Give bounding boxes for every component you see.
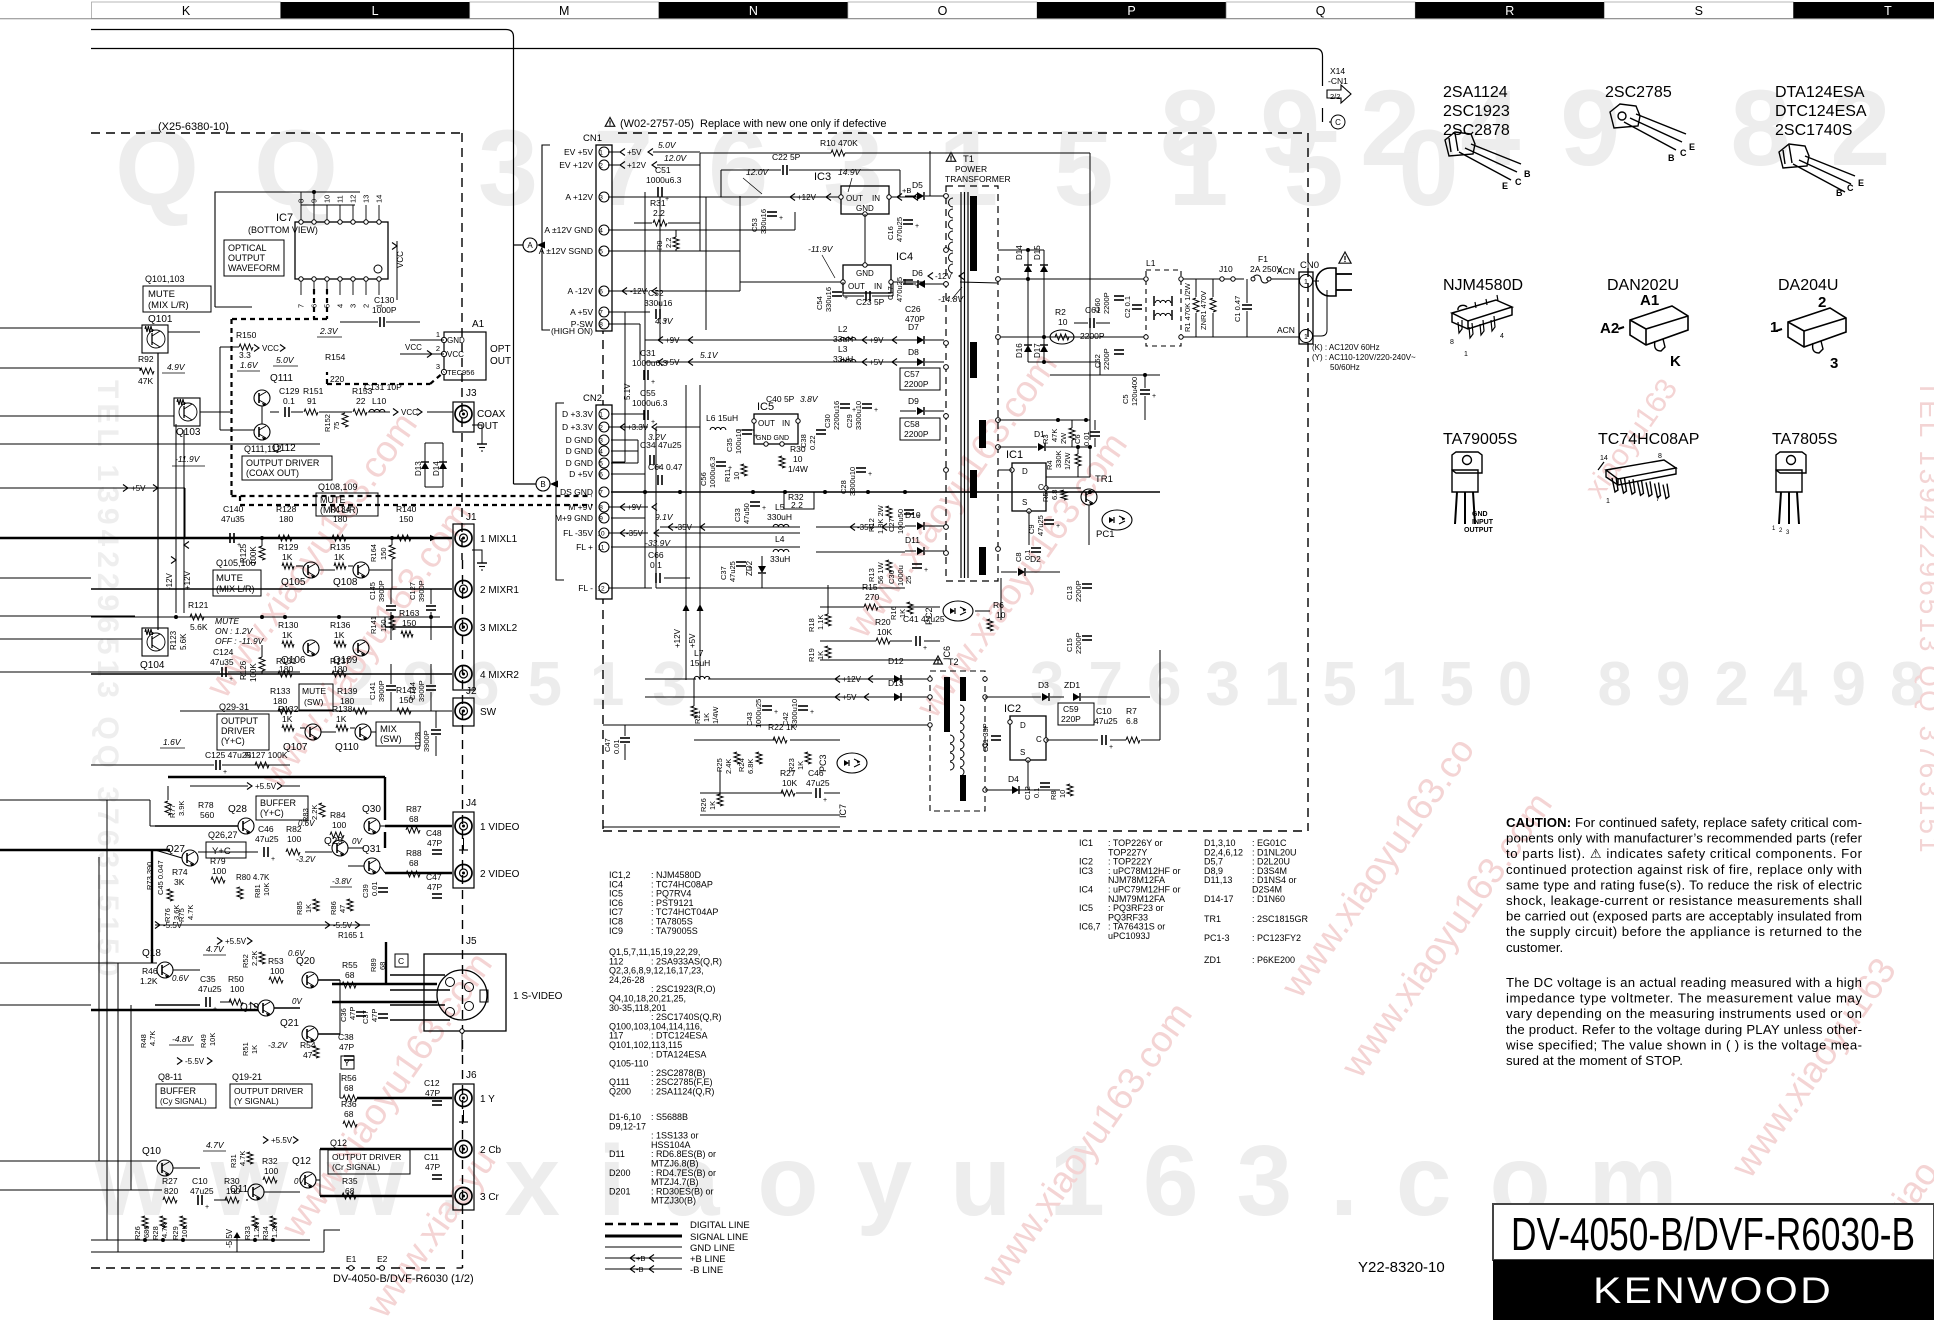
svg-text:same type and rating fuse(s).: same type and rating fuse(s). To reduce … <box>1506 877 1862 892</box>
svg-text:: TA79005S: : TA79005S <box>651 926 698 936</box>
svg-text:C15: C15 <box>1065 638 1074 652</box>
svg-text:10K: 10K <box>262 883 271 896</box>
svg-text:COAX: COAX <box>477 409 506 420</box>
svg-text:470u25: 470u25 <box>895 277 904 302</box>
svg-text:R56: R56 <box>341 1073 357 1083</box>
svg-text:M+9 GND: M+9 GND <box>555 513 593 523</box>
svg-text:+9V: +9V <box>665 336 680 345</box>
svg-text:TEL 13942296513 QQ 3763151: TEL 13942296513 QQ 3763151 <box>1914 380 1934 856</box>
svg-text:4 MIXR2: 4 MIXR2 <box>480 670 519 681</box>
svg-text:OUTPUT: OUTPUT <box>221 716 259 726</box>
svg-text:C39: C39 <box>361 884 370 898</box>
thick mix wire entry <box>91 849 170 851</box>
svg-text:+: + <box>823 797 827 804</box>
svg-text:IN: IN <box>872 194 880 203</box>
wire VCC vertical right of IC7 <box>396 241 398 300</box>
svg-text:+: + <box>651 379 655 386</box>
svg-text:A2: A2 <box>1600 320 1619 337</box>
svg-text:3900P: 3900P <box>377 580 386 602</box>
svg-text:J10: J10 <box>1219 264 1233 274</box>
svg-text:3 MIXL2: 3 MIXL2 <box>480 623 518 634</box>
digital dashed lines into IC7 pins <box>313 289 315 319</box>
svg-text:C: C <box>1038 483 1044 492</box>
svg-text:+: + <box>1056 523 1060 530</box>
svg-text:OUT: OUT <box>477 421 498 432</box>
svg-text:10: 10 <box>1058 317 1068 327</box>
mix SW box <box>376 722 420 746</box>
svg-text:C33: C33 <box>733 508 742 522</box>
+5.5V arrow bottom row <box>263 1137 268 1144</box>
mute block box MUTE (MIX L/R) <box>143 286 211 312</box>
+5V row T2 <box>645 696 930 698</box>
svg-text:B: B <box>1524 169 1531 179</box>
transistor Q105 <box>303 562 319 578</box>
wire vertical junction col <box>705 197 707 330</box>
svg-text:2.2: 2.2 <box>791 500 803 510</box>
svg-text:R46: R46 <box>142 966 158 976</box>
svg-text:C45 0.047: C45 0.047 <box>156 860 165 895</box>
svg-text:C127: C127 <box>408 582 417 600</box>
svg-text:4.7K: 4.7K <box>148 1031 157 1046</box>
svg-text:DV-4050-B/DVF-R6030-B: DV-4050-B/DVF-R6030-B <box>1511 1208 1915 1260</box>
svg-text:C52: C52 <box>648 288 664 298</box>
svg-text:+12V: +12V <box>673 628 682 648</box>
svg-text:-3.2V: -3.2V <box>268 1041 288 1050</box>
svg-text:470u25: 470u25 <box>895 217 904 242</box>
svg-text:Q110: Q110 <box>335 742 359 753</box>
svg-text:12: 12 <box>349 195 358 203</box>
IC3 wires <box>706 196 839 198</box>
package drawing NJM4580D DIP-8 <box>1452 295 1512 338</box>
boxed Y label <box>341 1056 354 1069</box>
svg-text:B: B <box>1836 188 1843 198</box>
svg-text:+B: +B <box>902 186 911 195</box>
svg-text:5.1V: 5.1V <box>700 350 719 360</box>
svg-text:OUT: OUT <box>846 194 863 203</box>
svg-text:VCC: VCC <box>401 408 418 417</box>
svg-text:R163: R163 <box>399 608 420 618</box>
svg-text:C16: C16 <box>886 226 895 240</box>
svg-text:R32: R32 <box>262 1156 278 1166</box>
svg-text:2SC2785: 2SC2785 <box>1605 84 1672 101</box>
T1 node circles right <box>996 277 1001 282</box>
svg-text:TR1: TR1 <box>1095 474 1113 485</box>
svg-text:15uH: 15uH <box>690 658 710 668</box>
svg-text:10K: 10K <box>208 1033 217 1046</box>
svg-text:1K: 1K <box>702 713 711 722</box>
svg-text:C6: C6 <box>1073 434 1082 444</box>
signal wire SW row <box>180 710 452 712</box>
svg-text:Q18: Q18 <box>142 948 161 959</box>
svg-text:C34 47u25: C34 47u25 <box>640 440 682 450</box>
svg-text:Q8-11: Q8-11 <box>158 1072 182 1082</box>
svg-text:R86: R86 <box>329 901 338 915</box>
svg-text:+5V: +5V <box>869 358 884 367</box>
svg-text:R133: R133 <box>270 686 291 696</box>
svg-text:R19: R19 <box>807 648 816 662</box>
svg-text:A1: A1 <box>472 319 485 330</box>
svg-text:C59: C59 <box>1063 704 1079 714</box>
svg-text:R48: R48 <box>139 1034 148 1048</box>
svg-text:OPT: OPT <box>490 344 511 355</box>
svg-text:R12: R12 <box>867 518 876 532</box>
svg-text:1K: 1K <box>336 714 347 724</box>
svg-text:-11.9V: -11.9V <box>175 454 201 464</box>
svg-text:47u35: 47u35 <box>221 514 245 524</box>
svg-text:(HIGH ON): (HIGH ON) <box>551 326 593 336</box>
svg-text:wise specified; The value show: wise specified; The value shown in ( ) i… <box>1505 1037 1862 1052</box>
svg-text:10: 10 <box>1058 790 1067 798</box>
svg-text:L6 15uH: L6 15uH <box>706 413 738 423</box>
svg-text:R128: R128 <box>276 504 297 514</box>
svg-text:Q19-21: Q19-21 <box>232 1072 262 1082</box>
svg-text:1/4W: 1/4W <box>711 706 720 724</box>
svg-text:56 1W: 56 1W <box>876 561 885 584</box>
svg-text:(SW): (SW) <box>304 697 324 707</box>
svg-text:12.0V: 12.0V <box>664 153 688 163</box>
svg-text:IC7: IC7 <box>838 804 848 818</box>
thick chroma bus top <box>168 776 385 778</box>
svg-text:R130: R130 <box>278 620 299 630</box>
svg-text:-11.9V: -11.9V <box>808 244 834 254</box>
wire Q111/Q112 chain <box>219 347 221 430</box>
svg-text:J4: J4 <box>466 798 477 809</box>
svg-text:PC1: PC1 <box>1096 529 1114 540</box>
svg-text:R49: R49 <box>199 1034 208 1048</box>
svg-text:C47: C47 <box>603 738 612 752</box>
svg-text:C36: C36 <box>887 570 896 584</box>
J5 wires <box>390 974 445 976</box>
svg-text:+5V: +5V <box>842 693 857 702</box>
svg-text:47P: 47P <box>348 1007 357 1020</box>
svg-text:O: O <box>938 4 948 18</box>
svg-text:-4.8V: -4.8V <box>172 1034 194 1044</box>
svg-text:C48: C48 <box>426 828 442 838</box>
power bottom wires <box>827 585 829 614</box>
svg-text:R22 1K: R22 1K <box>768 722 797 732</box>
svg-text:the supply circuit) before the: the supply circuit) before the appliance… <box>1506 924 1862 939</box>
header underline <box>0 18 1934 20</box>
wire FL rows <box>656 546 800 548</box>
svg-text:L4: L4 <box>775 534 785 544</box>
svg-text:L10: L10 <box>372 396 386 406</box>
svg-text:EV +12V: EV +12V <box>559 160 593 170</box>
package drawing DA204U SOT <box>1776 308 1846 353</box>
IC3 gnd stem <box>864 214 866 265</box>
svg-text:+: + <box>271 856 275 863</box>
mute box MUTE MIX L/R 2 <box>316 493 378 516</box>
svg-text:+: + <box>923 645 927 652</box>
capacitor C58 2200P boxed <box>900 418 940 440</box>
svg-text:L: L <box>372 4 379 18</box>
svg-text:R33: R33 <box>243 1226 252 1240</box>
svg-text:2SC2878: 2SC2878 <box>1443 122 1510 139</box>
svg-text:CN2: CN2 <box>583 393 602 404</box>
svg-text:C129: C129 <box>279 386 300 396</box>
svg-text:: DTA124ESA: : DTA124ESA <box>651 1049 706 1059</box>
svg-text:R123: R123 <box>169 630 178 650</box>
svg-text:C53: C53 <box>750 218 759 232</box>
svg-text:47u25: 47u25 <box>806 778 830 788</box>
svg-text:D9,12-17: D9,12-17 <box>609 1121 646 1131</box>
svg-text:customer.: customer. <box>1506 940 1563 955</box>
svg-text:7: 7 <box>599 490 603 497</box>
svg-text:C31: C31 <box>640 348 656 358</box>
svg-text:120u400: 120u400 <box>1130 377 1139 406</box>
svg-text:IC6,7: IC6,7 <box>1079 922 1101 932</box>
svg-text:100K: 100K <box>249 663 258 682</box>
svg-text:J3: J3 <box>466 388 477 399</box>
buffer row bus wires <box>167 786 169 800</box>
svg-text:E: E <box>1502 181 1508 191</box>
svg-text:R140: R140 <box>396 504 417 514</box>
svg-text:47u25: 47u25 <box>728 561 737 582</box>
svg-text:330uH: 330uH <box>767 512 792 522</box>
bracket B <box>556 403 564 580</box>
svg-text:R20: R20 <box>875 617 891 627</box>
svg-text:R26: R26 <box>133 1226 142 1240</box>
svg-text:D +3.3V: D +3.3V <box>562 409 593 419</box>
T2 lower wires <box>694 739 776 741</box>
svg-text:330K: 330K <box>1054 450 1063 468</box>
bottom gnd bus <box>91 1239 310 1241</box>
svg-text:1 S-VIDEO: 1 S-VIDEO <box>513 991 563 1002</box>
svg-text:2.2K: 2.2K <box>310 805 319 820</box>
svg-text:Q19: Q19 <box>240 1002 259 1013</box>
CN2 pin stub wires <box>611 413 645 415</box>
svg-text:POWER: POWER <box>955 164 987 174</box>
power board dashed outline <box>618 132 1308 134</box>
svg-text:E: E <box>1689 142 1695 152</box>
svg-text:3.8V: 3.8V <box>800 394 819 404</box>
svg-text:0.6V: 0.6V <box>172 974 189 983</box>
svg-text:R78: R78 <box>198 800 214 810</box>
svg-text:-B: -B <box>636 1265 644 1274</box>
wires IC2 area <box>1046 739 1098 741</box>
svg-text:C46: C46 <box>808 768 824 778</box>
svg-text:C8: C8 <box>1014 552 1023 562</box>
svg-text:OUTPUT DRIVER: OUTPUT DRIVER <box>246 458 320 468</box>
svg-text:5: 5 <box>599 461 603 468</box>
svg-text:2SC1740S: 2SC1740S <box>1775 122 1852 139</box>
svg-text:C12: C12 <box>1023 786 1032 800</box>
svg-text:2SC1923: 2SC1923 <box>1443 103 1510 120</box>
svg-text:R127 100K: R127 100K <box>245 750 288 760</box>
svg-text:1 VIDEO: 1 VIDEO <box>480 822 520 833</box>
svg-text:2200P: 2200P <box>904 379 929 389</box>
transistor Q27 <box>182 850 198 866</box>
svg-text:1K: 1K <box>250 1045 259 1054</box>
svg-text:R24: R24 <box>737 758 746 772</box>
svg-text:WAVEFORM: WAVEFORM <box>228 263 280 273</box>
svg-text:INPUT: INPUT <box>1472 519 1494 526</box>
package drawing TA7805S TO-220 <box>1776 452 1806 524</box>
svg-text:: P6KE200: : P6KE200 <box>1252 955 1295 965</box>
svg-text:C145: C145 <box>368 582 377 600</box>
svg-text:ZD1: ZD1 <box>1204 955 1221 965</box>
svg-text:R50: R50 <box>228 974 244 984</box>
svg-text:Q12: Q12 <box>330 1138 347 1148</box>
svg-text:CN0: CN0 <box>1300 260 1319 271</box>
svg-text:C12: C12 <box>424 1078 440 1088</box>
left margin vertical bus 4 <box>98 857 100 1161</box>
svg-text:R88: R88 <box>406 848 422 858</box>
svg-text:R31: R31 <box>650 198 666 208</box>
svg-text:C17: C17 <box>886 286 895 300</box>
svg-text:Q105,106: Q105,106 <box>216 558 256 568</box>
svg-text:100: 100 <box>270 966 284 976</box>
svg-text:Q200: Q200 <box>609 1087 631 1097</box>
svg-text:180: 180 <box>279 514 293 524</box>
connector J6 jacks <box>453 1084 474 1210</box>
svg-text:D +5V: D +5V <box>569 469 593 479</box>
svg-text:TA79005S: TA79005S <box>1443 431 1517 448</box>
+12V row T2 <box>645 678 696 680</box>
+5V arrows row <box>645 361 920 363</box>
svg-text:C128: C128 <box>413 732 422 750</box>
svg-text:R51: R51 <box>241 1042 250 1056</box>
svg-text:IC3: IC3 <box>814 171 831 183</box>
wire MIXL1 entry thick <box>0 537 91 540</box>
svg-text:330u16: 330u16 <box>759 209 768 234</box>
legend signal line <box>605 1235 682 1238</box>
svg-text:R136: R136 <box>330 620 351 630</box>
svg-text:D12: D12 <box>888 656 904 666</box>
svg-text:+: + <box>1152 393 1156 400</box>
-35V arrow CN2 <box>608 532 648 534</box>
svg-text:OUTPUT: OUTPUT <box>1464 527 1494 534</box>
svg-text:150: 150 <box>379 619 388 632</box>
svg-text:Q101,103: Q101,103 <box>145 274 185 284</box>
svg-text:ponents only with manufacturer: ponents only with manufacturer’s recomme… <box>1506 831 1863 846</box>
svg-text:0.01: 0.01 <box>612 739 621 754</box>
svg-text:-3.2V: -3.2V <box>296 855 316 864</box>
svg-text:C10: C10 <box>192 1176 208 1186</box>
svg-text:(Y) : AC110-120V/220-240V~: (Y) : AC110-120V/220-240V~ <box>1312 353 1416 362</box>
svg-text:Q108: Q108 <box>333 577 358 588</box>
svg-text:+: + <box>213 1006 217 1013</box>
wire to OPT OUT pins <box>410 339 444 341</box>
svg-text:-12V: -12V <box>935 272 953 281</box>
svg-text:C2 0.1: C2 0.1 <box>1123 296 1132 318</box>
svg-text:R74: R74 <box>172 867 188 877</box>
svg-text:C28: C28 <box>839 480 848 494</box>
svg-text:R138: R138 <box>332 704 353 714</box>
svg-text:TRANSFORMER: TRANSFORMER <box>945 174 1011 184</box>
buffer Y+C box <box>256 796 308 820</box>
svg-text:3900P: 3900P <box>417 680 426 702</box>
svg-text:-CN1: -CN1 <box>1328 76 1348 86</box>
svg-text:+9V: +9V <box>869 336 884 345</box>
svg-text:R18: R18 <box>807 618 816 632</box>
svg-text:(W02-2757-05): (W02-2757-05) <box>620 118 694 130</box>
svg-text:R: R <box>1505 4 1514 18</box>
svg-text:1000u6.3: 1000u6.3 <box>708 457 717 488</box>
svg-text:+: + <box>223 769 227 776</box>
svg-text:0.22: 0.22 <box>808 435 817 450</box>
svg-text:4.7K: 4.7K <box>238 1151 247 1166</box>
svg-text:C43: C43 <box>745 712 754 726</box>
svg-text:R2: R2 <box>1055 307 1066 317</box>
svg-text:SIGNAL LINE: SIGNAL LINE <box>690 1232 748 1243</box>
svg-text:100u50: 100u50 <box>896 509 905 534</box>
svg-text:C60: C60 <box>1093 298 1102 312</box>
svg-text:R30: R30 <box>790 444 806 454</box>
svg-text:R79: R79 <box>210 856 226 866</box>
svg-text:+: + <box>868 471 872 478</box>
svg-text:D9: D9 <box>908 396 919 406</box>
svg-text:FL +: FL + <box>576 542 593 552</box>
svg-text:1K: 1K <box>816 651 825 660</box>
svg-text:R10 470K: R10 470K <box>820 138 858 148</box>
svg-text:10: 10 <box>323 195 332 203</box>
svg-text:to parts list). ⚠ indicates: to parts list). ⚠ indicates safety criti… <box>1506 846 1863 861</box>
svg-text:R36: R36 <box>341 1099 357 1109</box>
svg-text:IC1: IC1 <box>1079 838 1093 848</box>
svg-text:C55: C55 <box>640 388 656 398</box>
svg-text:9: 9 <box>599 516 603 523</box>
svg-text:OUT: OUT <box>848 282 865 291</box>
svg-text:4.7K: 4.7K <box>186 905 195 920</box>
svg-text:1000u6.3: 1000u6.3 <box>646 175 682 185</box>
svg-text:1: 1 <box>599 412 603 419</box>
svg-text:2: 2 <box>436 344 440 353</box>
grid header row <box>92 2 1934 19</box>
transformer T1 primary bars <box>970 196 977 271</box>
svg-text:-5.5V: -5.5V <box>163 921 183 930</box>
svg-text:C27: C27 <box>887 518 896 532</box>
svg-text:(X25-6380-10): (X25-6380-10) <box>158 121 229 133</box>
svg-text:K: K <box>182 4 191 18</box>
svg-text:B: B <box>540 480 545 489</box>
svg-text:GND: GND <box>447 336 465 345</box>
svg-text:180: 180 <box>333 664 347 674</box>
svg-text:L1: L1 <box>1146 258 1156 268</box>
transformer T2 warning <box>934 656 943 664</box>
wire T1 secondary rails <box>998 419 1090 421</box>
svg-text:Q26,27: Q26,27 <box>208 830 238 840</box>
svg-text:D: D <box>1022 467 1028 476</box>
svg-text:L3: L3 <box>838 344 848 354</box>
svg-text:D11,13: D11,13 <box>1204 875 1232 885</box>
svg-text:47u25: 47u25 <box>198 984 222 994</box>
svg-text:R26: R26 <box>699 798 708 812</box>
AC plug symbol <box>1316 268 1336 296</box>
svg-text:ON : 1.2V: ON : 1.2V <box>215 626 254 636</box>
svg-text:3300u10: 3300u10 <box>854 401 863 430</box>
svg-text:R135: R135 <box>330 542 351 552</box>
svg-text:270: 270 <box>865 592 879 602</box>
svg-text:+5V: +5V <box>688 633 697 648</box>
svg-text:2 VIDEO: 2 VIDEO <box>480 869 520 880</box>
svg-text:1K: 1K <box>282 630 293 640</box>
svg-text:A +12V: A +12V <box>565 192 593 202</box>
svg-text:C57: C57 <box>904 369 920 379</box>
transistor Q103 <box>174 398 200 426</box>
svg-text:M +9V: M +9V <box>568 502 593 512</box>
svg-text:R126: R126 <box>239 660 248 680</box>
svg-text:DTC124ESA: DTC124ESA <box>1775 103 1867 120</box>
+5V arrow entry <box>123 485 128 492</box>
svg-text:0.01: 0.01 <box>370 881 379 896</box>
transformer T2 bars <box>944 677 950 732</box>
svg-text:OFF : -11.9V: OFF : -11.9V <box>215 636 265 646</box>
svg-text:C: C <box>398 956 404 966</box>
svg-text:Y22-8320-10: Y22-8320-10 <box>1358 1259 1445 1276</box>
svg-text:(BOTTOM VIEW): (BOTTOM VIEW) <box>248 225 318 235</box>
wire Q103 to bus <box>200 411 230 413</box>
svg-text:+12V: +12V <box>183 570 192 590</box>
